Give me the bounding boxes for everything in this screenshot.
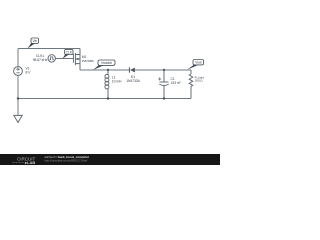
svg-text:133 nF: 133 nF bbox=[171, 81, 181, 85]
ground bbox=[14, 115, 22, 122]
junction node C1 top bbox=[163, 69, 165, 71]
svg-text:Vout: Vout bbox=[195, 61, 202, 65]
diode D1 bbox=[129, 67, 135, 72]
wire left vertical from top rail to V1 top bbox=[17, 49, 19, 67]
net label Vin bbox=[28, 38, 39, 49]
svg-text:1N4733A: 1N4733A bbox=[126, 79, 140, 83]
transistor M1 bbox=[73, 49, 80, 71]
net label Vout bbox=[187, 60, 203, 70]
svg-text:8 V: 8 V bbox=[26, 70, 32, 74]
inductor L1 bbox=[105, 70, 109, 99]
junction node V1 / bottom rail bbox=[17, 97, 19, 99]
wire gate from CLK1 to M1 bbox=[55, 58, 73, 60]
net label CLK bbox=[63, 49, 74, 58]
clock source CLK1 bbox=[48, 55, 55, 62]
footer credit text bbox=[45, 155, 90, 162]
footer logo CIRCUITLAB bbox=[13, 157, 36, 165]
svg-text:CLK: CLK bbox=[66, 50, 73, 54]
junction node Vswitch/L1 top bbox=[107, 69, 109, 71]
wire top rail bbox=[18, 48, 80, 50]
wire Vswitch rail left of diode bbox=[80, 69, 129, 71]
svg-text:98.67 kHz: 98.67 kHz bbox=[33, 58, 48, 62]
svg-text:10 mH: 10 mH bbox=[112, 79, 122, 83]
wire Vswitch rail right of diode bbox=[135, 69, 191, 71]
net label Vswitch bbox=[93, 60, 115, 70]
svg-text:Vswitch: Vswitch bbox=[101, 61, 112, 65]
svg-text:http://circuitlab.com/c/895217: http://circuitlab.com/c/89521716fw/ bbox=[45, 158, 88, 162]
svg-text:▸LAB: ▸LAB bbox=[24, 160, 35, 165]
svg-text:ZVP3306: ZVP3306 bbox=[82, 59, 94, 63]
junction node L1 bottom bbox=[107, 97, 109, 99]
svg-text:100 Ω: 100 Ω bbox=[195, 79, 204, 83]
wire V1 bottom to ground bbox=[17, 75, 19, 115]
svg-text:Vin: Vin bbox=[32, 39, 37, 43]
resistor R_load bbox=[189, 70, 193, 99]
junction node C1 bottom bbox=[163, 97, 165, 99]
wire bottom rail bbox=[18, 98, 191, 100]
capacitor C1 bbox=[158, 70, 169, 99]
footer bar bbox=[0, 154, 220, 165]
voltage source V1 bbox=[14, 67, 23, 76]
